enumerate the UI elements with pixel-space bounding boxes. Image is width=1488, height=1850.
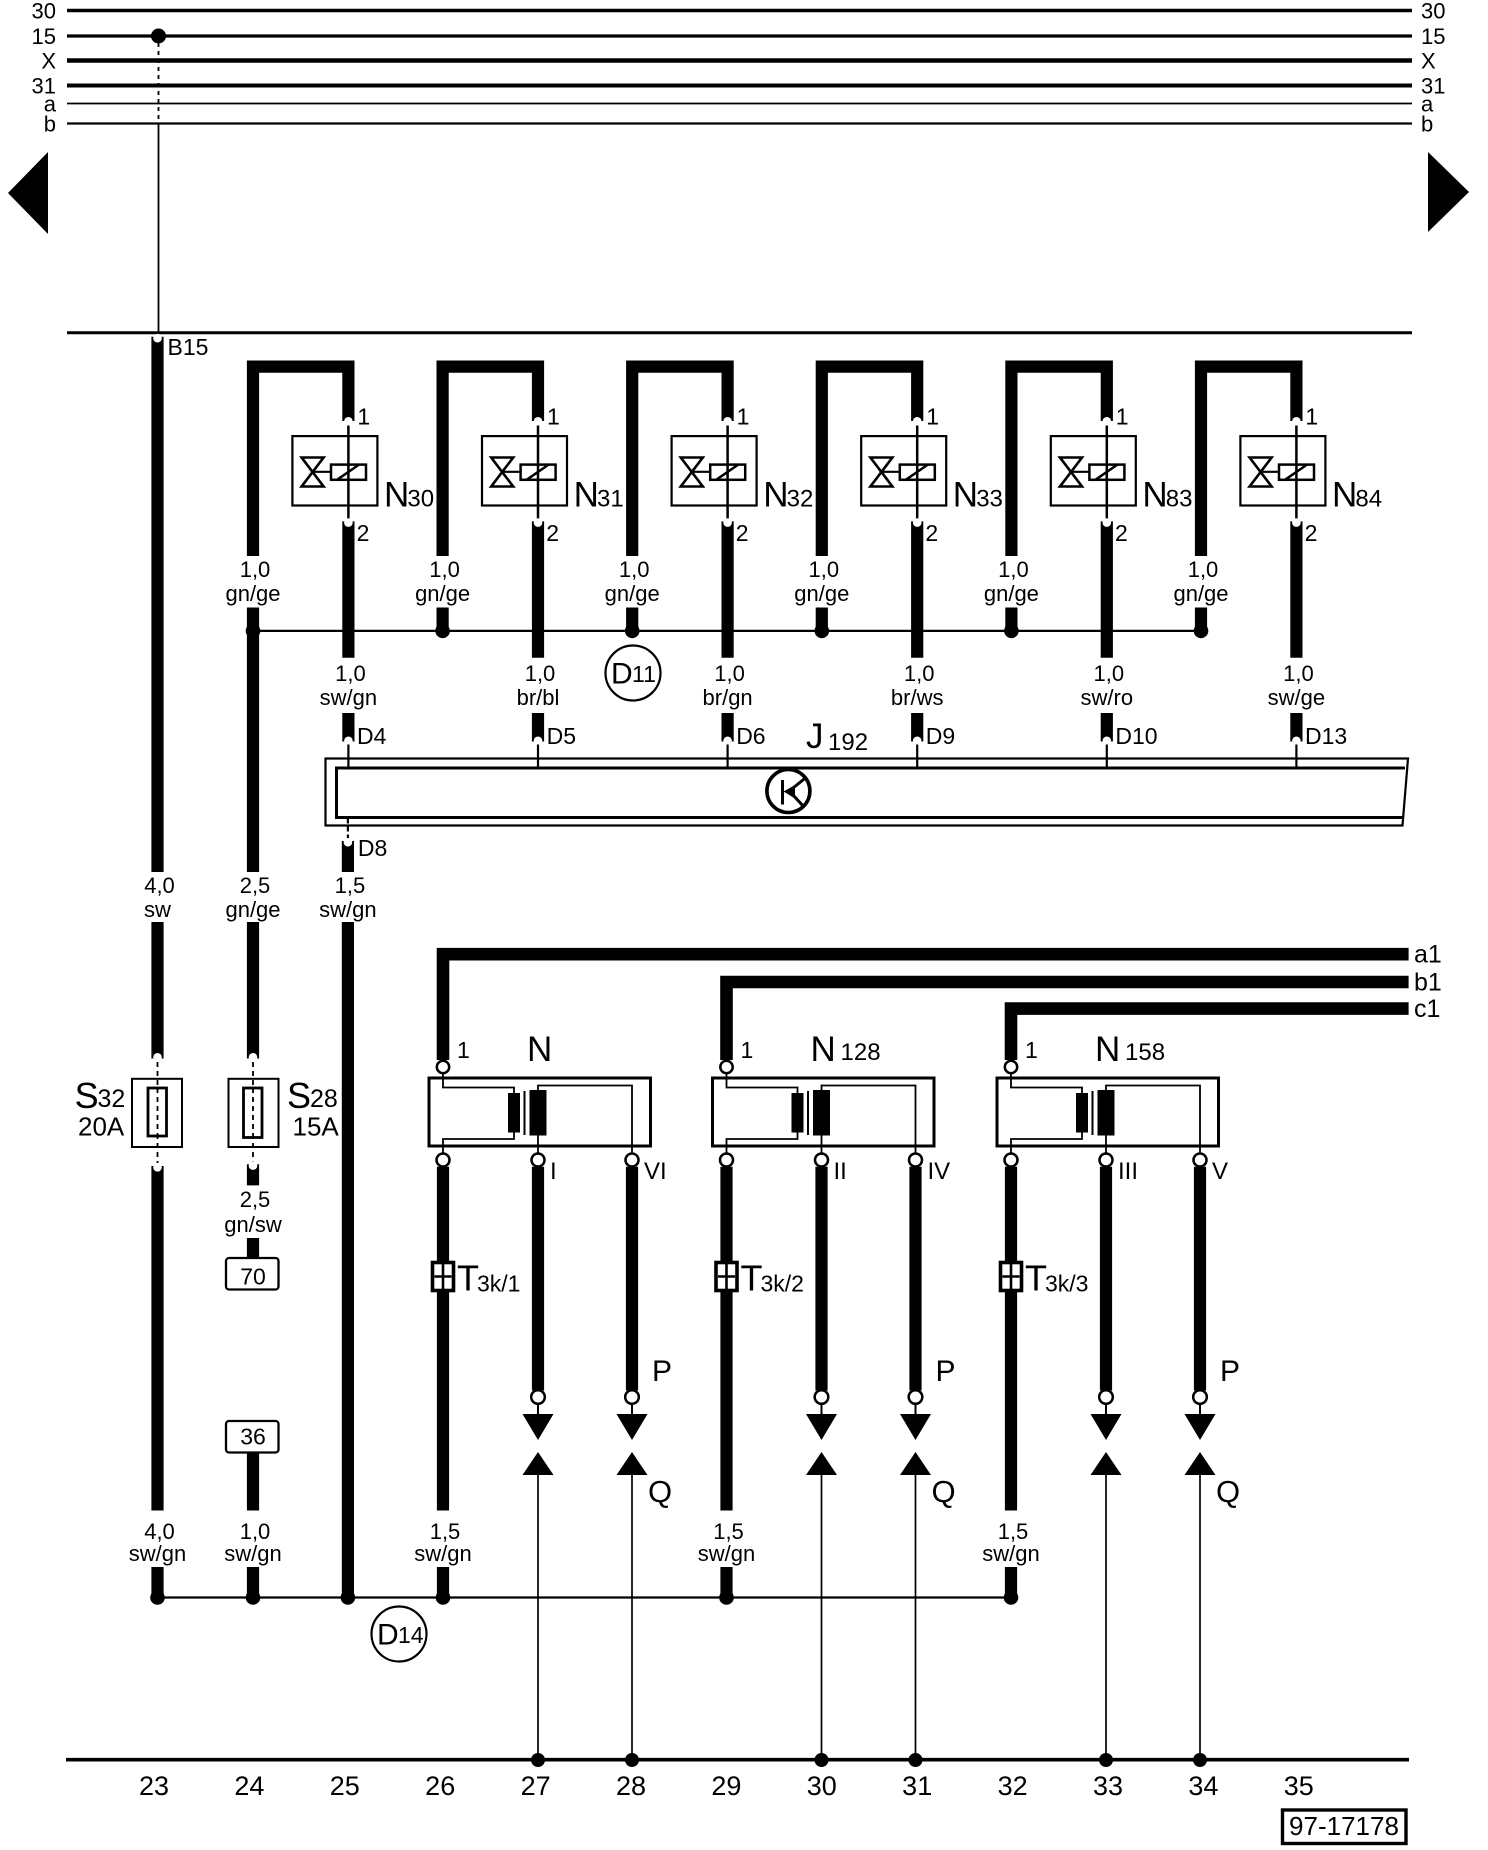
junction dot on ground line (N/I) [531, 1753, 545, 1767]
svg-text:2,5: 2,5 [240, 1187, 271, 1212]
pin 1 of coil N128 [720, 1037, 753, 1073]
page arrow left [8, 152, 48, 234]
svg-text:1: 1 [737, 404, 750, 430]
svg-text:2: 2 [925, 520, 938, 546]
svg-text:33: 33 [1093, 1771, 1123, 1801]
svg-text:N: N [1142, 476, 1167, 515]
node D14 [372, 1607, 427, 1662]
terminal D10 stub [1103, 713, 1158, 767]
svg-text:gn/ge: gn/ge [794, 581, 849, 606]
connector T3k/3 [1001, 1258, 1089, 1299]
junction dot on D14 bus [246, 1590, 261, 1605]
spark plug lead to ground (N128/II) [821, 1475, 823, 1760]
wire segment to D14 bus (N) [437, 1567, 449, 1597]
svg-text:I: I [550, 1158, 557, 1185]
wire bus (gn/ge distribution) [253, 630, 1202, 632]
spark plug lead to ground (N158/V) [1199, 1475, 1201, 1760]
svg-text:a1: a1 [1414, 941, 1442, 969]
bus bar a [44, 92, 1434, 117]
spark plug lead to ground (N128/IV) [915, 1475, 917, 1760]
svg-text:3k/1: 3k/1 [477, 1271, 520, 1297]
svg-text:sw/gn: sw/gn [414, 1541, 471, 1566]
svg-text:97-17178: 97-17178 [1289, 1811, 1399, 1841]
svg-text:1: 1 [357, 404, 370, 430]
wire label 1,0 sw/ge [1268, 661, 1325, 710]
pin 1 of N32 [728, 404, 750, 437]
svg-text:30: 30 [32, 0, 56, 24]
pin 1 of N33 [917, 404, 939, 437]
svg-text:26: 26 [425, 1771, 455, 1801]
wire label 1,5 sw/gn (N158) [982, 1519, 1039, 1566]
junction dot on D14 bus [436, 1590, 451, 1605]
svg-text:gn/ge: gn/ge [984, 581, 1039, 606]
spark plug connector P (N128/IV) [900, 1414, 931, 1440]
svg-text:sw/gn: sw/gn [320, 685, 377, 710]
wire hook feed of injector N84 [1201, 367, 1301, 556]
wire hook feed of injector N83 [1011, 367, 1111, 556]
svg-text:P: P [936, 1355, 956, 1388]
spark plug connector P (N158/V) [1185, 1414, 1216, 1440]
svg-text:1,0: 1,0 [904, 661, 935, 686]
junction dot on D14 bus [1004, 1590, 1019, 1605]
high tension lead V of coil N158 [1193, 1167, 1207, 1415]
fuse S32 20A [75, 1062, 182, 1163]
wire label 1,5 sw/gn (N) [414, 1519, 471, 1566]
svg-text:b: b [44, 112, 56, 137]
svg-text:23: 23 [139, 1771, 169, 1801]
svg-text:20A: 20A [78, 1112, 125, 1142]
svg-text:br/gn: br/gn [703, 685, 753, 710]
wire segment to D11 bus (N84) [1195, 608, 1207, 629]
svg-text:gn/sw: gn/sw [224, 1212, 282, 1237]
pin 1 of N84 [1296, 404, 1318, 437]
wire b1 [727, 969, 1442, 1061]
svg-text:35: 35 [1284, 1771, 1314, 1801]
wire 1,5 sw/gn segment (D8 to D14 bus) [342, 922, 354, 1597]
svg-text:128: 128 [841, 1039, 881, 1066]
svg-text:34: 34 [1188, 1771, 1218, 1801]
svg-text:33: 33 [976, 486, 1003, 513]
terminal D13 stub [1292, 713, 1347, 767]
wire segment to D11 bus (N31) [437, 608, 449, 629]
svg-text:N: N [384, 476, 409, 515]
wire segment to D14 bus (N128) [720, 1567, 732, 1597]
svg-text:D8: D8 [358, 835, 387, 861]
wire label 1,0 gn/ge (N31 feed) [415, 557, 470, 606]
svg-text:N: N [574, 476, 599, 515]
label P (N128) [936, 1355, 956, 1388]
wire label 1,0 gn/ge (N33 feed) [794, 557, 849, 606]
svg-text:25: 25 [330, 1771, 360, 1801]
ignition coil N158 label [1095, 1030, 1165, 1069]
wire a1 [443, 941, 1442, 1060]
pin 2 of N30 [357, 520, 370, 546]
wire 4,0 sw segment to fuse S32 [153, 922, 162, 1062]
terminal D4 stub [344, 713, 387, 767]
wire from pin 2 of N32 [723, 518, 732, 657]
wire label 1,5 sw/gn (D8) [319, 873, 376, 922]
node D11 [606, 646, 661, 701]
wire label 1,0 sw/ro [1081, 661, 1134, 710]
connector T3k/1 [433, 1258, 521, 1299]
bus bar b [44, 112, 1434, 137]
control unit J192 label [806, 717, 868, 756]
svg-text:29: 29 [711, 1771, 741, 1801]
svg-text:gn/ge: gn/ge [225, 897, 280, 922]
page arrow right [1428, 152, 1469, 232]
svg-text:T: T [1025, 1258, 1047, 1299]
svg-text:gn/ge: gn/ge [415, 581, 470, 606]
svg-text:Q: Q [648, 1474, 672, 1509]
junction dot on ground line (N158/III) [1099, 1753, 1113, 1767]
svg-text:D: D [377, 1619, 399, 1652]
svg-text:Q: Q [932, 1474, 956, 1509]
svg-text:sw/gn: sw/gn [129, 1541, 186, 1566]
svg-text:4,0: 4,0 [144, 873, 175, 898]
svg-text:32: 32 [998, 1771, 1028, 1801]
wire hook feed of injector N31 [443, 367, 543, 556]
wire label 4,0 sw/gn [129, 1519, 186, 1566]
ignition coil N label [527, 1030, 552, 1069]
svg-text:sw/gn: sw/gn [319, 897, 376, 922]
pin 2 of N31 [546, 520, 559, 546]
high tension lead II of coil N128 [815, 1167, 829, 1415]
svg-text:15: 15 [1421, 24, 1445, 49]
primary wire 1,5 sw/gn of coil N128 [720, 1167, 732, 1511]
high tension lead III of coil N158 [1099, 1167, 1113, 1415]
svg-text:N: N [527, 1030, 552, 1069]
svg-text:31: 31 [597, 486, 624, 513]
svg-text:sw/gn: sw/gn [224, 1541, 281, 1566]
spark plug Q (N/I) [523, 1452, 554, 1475]
primary wire 1,5 sw/gn of coil N [437, 1167, 449, 1511]
wire label 1,0 br/ws [891, 661, 944, 710]
svg-text:V: V [1212, 1158, 1228, 1185]
junction dot on D11 bus (N30) [246, 624, 261, 639]
junction dot on D11 bus (N84) [1194, 624, 1209, 639]
svg-text:36: 36 [240, 1424, 266, 1450]
svg-text:sw/gn: sw/gn [982, 1541, 1039, 1566]
pin 2 of N84 [1305, 520, 1318, 546]
svg-text:32: 32 [98, 1085, 126, 1113]
svg-text:br/bl: br/bl [517, 685, 560, 710]
bus bar X [41, 49, 1436, 74]
svg-text:1,0: 1,0 [714, 661, 745, 686]
output pins of coil N [437, 1154, 667, 1186]
junction node on bus 15 [151, 29, 166, 44]
wire segment to D11 bus (N33) [816, 608, 828, 629]
control unit J192 box [326, 759, 1409, 826]
svg-text:D4: D4 [357, 723, 387, 749]
wire stub into terminal 70 [247, 1238, 259, 1258]
svg-text:S: S [287, 1075, 311, 1116]
svg-text:3k/3: 3k/3 [1045, 1271, 1088, 1297]
wire from pin 2 of N30 [344, 518, 353, 657]
svg-text:30: 30 [1421, 0, 1445, 24]
svg-text:N: N [763, 476, 788, 515]
junction dot on ground line (N128/IV) [909, 1753, 923, 1767]
terminal D5 stub [534, 713, 576, 767]
svg-text:D10: D10 [1115, 723, 1157, 749]
spark plug Q (N158/V) [1185, 1452, 1216, 1475]
injector valve N84 [1240, 436, 1382, 519]
svg-text:D5: D5 [547, 723, 576, 749]
spark plug Q (N158/III) [1091, 1452, 1122, 1475]
svg-text:2: 2 [736, 520, 749, 546]
svg-text:D6: D6 [736, 723, 765, 749]
svg-text:III: III [1118, 1158, 1138, 1185]
wire hook feed of injector N32 [632, 367, 732, 556]
wire label 1,0 sw/gn [320, 661, 377, 710]
svg-text:Q: Q [1216, 1474, 1240, 1509]
junction dot on D11 bus (N33) [815, 624, 830, 639]
output pins of coil N158 [1005, 1154, 1229, 1186]
wire segment to D14 bus (N158) [1005, 1567, 1017, 1597]
wire 1,0 sw/gn to D14 bus [247, 1567, 259, 1597]
svg-text:28: 28 [616, 1771, 646, 1801]
wire hook feed of injector N30 [253, 367, 353, 556]
ignition coil N128 [713, 1074, 935, 1154]
svg-text:c1: c1 [1414, 995, 1440, 1023]
wire label 2,5 gn/sw [224, 1187, 282, 1237]
svg-text:30: 30 [407, 486, 434, 513]
svg-text:1: 1 [1305, 404, 1318, 430]
svg-text:30: 30 [807, 1771, 837, 1801]
pin 2 of N32 [736, 520, 749, 546]
junction dot on ground line (N158/V) [1193, 1753, 1207, 1767]
terminal D6 stub [723, 713, 765, 767]
bus bar 30 [32, 0, 1446, 24]
diagram number 97-17178 [1283, 1810, 1407, 1844]
svg-text:1: 1 [1025, 1037, 1038, 1063]
svg-text:32: 32 [787, 486, 814, 513]
svg-text:70: 70 [240, 1264, 266, 1290]
svg-text:24: 24 [234, 1771, 264, 1801]
wire label 1,0 br/bl [517, 661, 560, 710]
pin 2 of N33 [925, 520, 938, 546]
svg-text:X: X [41, 49, 56, 74]
spark plug lead to ground (N158/III) [1105, 1475, 1107, 1760]
svg-text:1,5: 1,5 [335, 873, 366, 898]
fuse S28 15A [229, 1062, 340, 1163]
spark plug Q (N128/IV) [900, 1452, 931, 1475]
pin 1 of N31 [538, 404, 560, 437]
pin 1 of coil N158 [1005, 1037, 1038, 1073]
svg-text:N: N [1332, 476, 1357, 515]
svg-text:27: 27 [521, 1771, 551, 1801]
ignition coil N128 label [811, 1030, 881, 1069]
svg-text:T: T [457, 1258, 479, 1299]
svg-text:T: T [741, 1258, 763, 1299]
spark plug connector P (N128/II) [806, 1414, 837, 1440]
svg-text:84: 84 [1355, 486, 1382, 513]
svg-text:D9: D9 [926, 723, 955, 749]
spark plug connector P (N/VI) [617, 1414, 648, 1440]
label Q (N158) [1216, 1474, 1240, 1509]
wire label 1,0 gn/ge (N32 feed) [605, 557, 660, 606]
terminal 70 box [226, 1258, 279, 1290]
svg-text:1,0: 1,0 [240, 557, 271, 582]
svg-text:31: 31 [902, 1771, 932, 1801]
junction dot on D11 bus (N31) [435, 624, 450, 639]
svg-text:2: 2 [546, 520, 559, 546]
node B15 [153, 334, 208, 872]
wire label 1,0 gn/ge (N30 feed) [225, 557, 280, 606]
svg-text:N: N [953, 476, 978, 515]
junction dot on D14 bus [150, 1590, 165, 1605]
terminal D9 stub [913, 713, 955, 767]
primary wire 1,5 sw/gn of coil N158 [1005, 1167, 1017, 1511]
spark plug Q (N128/II) [806, 1452, 837, 1475]
svg-text:X: X [1421, 49, 1436, 74]
svg-text:br/ws: br/ws [891, 685, 944, 710]
svg-text:sw/gn: sw/gn [698, 1541, 755, 1566]
track numbers [139, 1771, 1314, 1801]
injector valve N33 [861, 436, 1003, 519]
injector valve N31 [482, 436, 624, 519]
svg-text:1: 1 [457, 1037, 470, 1063]
junction dot on D11 bus (N83) [1004, 624, 1019, 639]
svg-text:D13: D13 [1305, 723, 1347, 749]
svg-text:gn/ge: gn/ge [225, 581, 280, 606]
ground line [66, 1758, 1409, 1762]
svg-text:1,0: 1,0 [1188, 557, 1219, 582]
wire label 1,0 sw/gn [224, 1519, 281, 1566]
svg-text:1,0: 1,0 [1094, 661, 1125, 686]
svg-text:S: S [75, 1075, 99, 1116]
wire hook feed of injector N33 [822, 367, 922, 556]
pin 1 of N30 [348, 404, 370, 437]
svg-text:IV: IV [928, 1158, 951, 1185]
svg-text:VI: VI [644, 1158, 667, 1185]
pin 2 of N83 [1115, 520, 1128, 546]
injector valve N32 [672, 436, 814, 519]
svg-text:1,0: 1,0 [998, 557, 1029, 582]
svg-text:14: 14 [398, 1622, 424, 1648]
symbol K inside J192 [767, 770, 810, 813]
svg-text:1: 1 [547, 404, 560, 430]
label Q (N128) [932, 1474, 956, 1509]
high tension lead VI of coil N [625, 1167, 639, 1415]
svg-text:N: N [1095, 1030, 1120, 1069]
svg-text:2: 2 [1305, 520, 1318, 546]
svg-text:192: 192 [828, 729, 868, 756]
svg-text:sw/ro: sw/ro [1081, 685, 1134, 710]
label P (N) [652, 1355, 672, 1388]
terminal 36 box [226, 1421, 279, 1453]
high tension lead I of coil N [531, 1167, 545, 1415]
connector T3k/2 [716, 1258, 804, 1299]
svg-text:1: 1 [1116, 404, 1129, 430]
svg-text:b1: b1 [1414, 969, 1442, 997]
wire from pin 2 of N83 [1103, 518, 1112, 657]
wire label 1,0 gn/ge (N84 feed) [1173, 557, 1228, 606]
svg-text:P: P [652, 1355, 672, 1388]
svg-text:N: N [811, 1030, 836, 1069]
spark plug connector P (N/I) [523, 1414, 554, 1440]
svg-text:1,0: 1,0 [429, 557, 460, 582]
svg-text:b: b [1421, 112, 1433, 137]
svg-text:2,5: 2,5 [240, 873, 271, 898]
svg-text:II: II [834, 1158, 847, 1185]
wire label 4,0 sw [144, 873, 175, 922]
wire label 1,5 sw/gn (N128) [698, 1519, 755, 1566]
wire label 1,0 br/gn [703, 661, 753, 710]
wire c1 [1011, 995, 1440, 1060]
bus bar 15 [32, 24, 1446, 49]
high tension lead IV of coil N128 [909, 1167, 923, 1415]
svg-text:gn/ge: gn/ge [605, 581, 660, 606]
junction dot on D11 bus (N32) [625, 624, 640, 639]
injector valve N30 [292, 436, 434, 519]
terminal D8 stub [344, 819, 388, 873]
svg-text:11: 11 [632, 661, 656, 687]
svg-text:2: 2 [1115, 520, 1128, 546]
svg-text:sw: sw [144, 897, 171, 922]
svg-text:1,0: 1,0 [619, 557, 650, 582]
svg-text:2: 2 [357, 520, 370, 546]
wire from pin 2 of N33 [913, 518, 922, 657]
svg-text:1: 1 [741, 1037, 754, 1063]
junction dot on D14 bus [719, 1590, 734, 1605]
output pins of coil N128 [720, 1154, 950, 1186]
wire from pin 2 of N84 [1292, 518, 1301, 657]
spark plug Q (N/VI) [617, 1452, 648, 1475]
svg-text:83: 83 [1166, 486, 1193, 513]
svg-text:15: 15 [32, 24, 56, 49]
junction dot on D14 bus [341, 1590, 356, 1605]
svg-text:J: J [806, 717, 824, 756]
wire 4,0 sw/gn to D14 bus [151, 1567, 163, 1597]
pin 1 of N83 [1107, 404, 1129, 437]
svg-text:1: 1 [926, 404, 939, 430]
svg-text:28: 28 [310, 1085, 338, 1113]
svg-text:15A: 15A [293, 1112, 340, 1142]
label P (N158) [1220, 1355, 1240, 1388]
svg-text:3k/2: 3k/2 [761, 1271, 804, 1297]
svg-text:158: 158 [1125, 1039, 1165, 1066]
label Q (N) [648, 1474, 672, 1509]
wire segment to D11 bus (N30) [247, 608, 259, 629]
wire 4,0 sw/gn segment below fuse S32 [153, 1163, 162, 1511]
horizontal separator line [67, 331, 1412, 334]
wire from terminal 36 [247, 1453, 259, 1511]
wire label 1,0 gn/ge (N83 feed) [984, 557, 1039, 606]
wire from pin 2 of N31 [534, 518, 543, 657]
wire bus D14 (sw/gn distribution) [158, 1596, 1012, 1598]
wire from bus 15 down to separator (dashed then solid) [158, 43, 160, 332]
svg-text:1,0: 1,0 [1283, 661, 1314, 686]
svg-text:1,0: 1,0 [809, 557, 840, 582]
svg-text:1,0: 1,0 [525, 661, 556, 686]
svg-text:P: P [1220, 1355, 1240, 1388]
svg-text:1,0: 1,0 [335, 661, 366, 686]
wire label 2,5 gn/ge [225, 873, 280, 922]
bus bar 31 [32, 74, 1446, 99]
wire 2,5 gn/ge segment to fuse S28 [249, 635, 258, 1062]
pin 1 of coil N [437, 1037, 470, 1073]
svg-text:D: D [611, 658, 633, 691]
injector valve N83 [1051, 436, 1193, 519]
ignition coil N [429, 1074, 651, 1154]
svg-text:gn/ge: gn/ge [1173, 581, 1228, 606]
spark plug connector P (N158/III) [1091, 1414, 1122, 1440]
spark plug lead to ground (N/VI) [631, 1475, 633, 1760]
junction dot on ground line (N128/II) [815, 1753, 829, 1767]
wire segment to D11 bus (N83) [1005, 608, 1017, 629]
svg-text:sw/ge: sw/ge [1268, 685, 1325, 710]
wire segment to D11 bus (N32) [626, 608, 638, 629]
